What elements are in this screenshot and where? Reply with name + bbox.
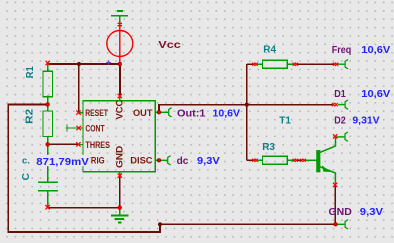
resistor R4	[256, 60, 294, 68]
pin connection cross: GND terminal node	[334, 223, 337, 226]
svg-text:R2: R2	[25, 108, 36, 123]
pin connection cross: 555 GND pin	[118, 173, 122, 177]
wire: from node down to RESET pin	[78, 64, 80, 113]
capacitor C	[38, 144, 58, 206]
wire: bottom ground rail to GND terminal	[160, 223, 338, 225]
pin connection cross: CONT pin	[77, 126, 81, 130]
resistor R3	[256, 156, 294, 164]
wire: R3 left lead	[247, 159, 254, 161]
svg-text:871,79mV: 871,79mV	[36, 156, 89, 168]
pin connection crosses: R3 right pin	[293, 159, 299, 162]
svg-text:C: C	[21, 173, 32, 180]
svg-text:9,31V: 9,31V	[352, 116, 380, 127]
pin connection cross: source output node	[118, 62, 121, 65]
wire: R4 right lead to Freq terminal	[296, 63, 335, 65]
node: bottom rail corner	[158, 222, 162, 226]
pin connection crosses: R3 left pin	[252, 159, 257, 162]
wire: Vcc node rail from R1 top to source bottom	[48, 63, 120, 65]
pin connection cross: OUT pin node	[157, 111, 160, 114]
wire: R4 left lead	[247, 63, 254, 65]
wire: OUT pin up and right to D1 terminal	[159, 105, 333, 113]
pin connection cross: T1 emitter pin	[333, 183, 337, 187]
pin connection crosses: R4 left pin	[252, 63, 257, 66]
svg-text:c.: c.	[22, 155, 30, 166]
label GND 9,3V	[329, 207, 384, 218]
ground	[111, 208, 129, 223]
terminal dc	[161, 156, 171, 165]
svg-text:Out:1: Out:1	[177, 108, 206, 119]
svg-text:D2: D2	[334, 116, 346, 127]
svg-text:10,6V: 10,6V	[361, 89, 390, 100]
voltage source V1	[107, 22, 133, 64]
pin connection cross: capacitor bottom pin	[45, 205, 49, 209]
pin connection cross: T1 collector pin	[333, 134, 337, 138]
svg-text:dc: dc	[177, 156, 189, 167]
label c. 871,79mV	[21, 155, 91, 168]
svg-text:R4: R4	[263, 45, 276, 56]
pin connection crosses: R4 right pin	[293, 63, 298, 66]
terminal GND	[338, 220, 348, 229]
node: source output	[118, 62, 122, 66]
node: ground junction	[118, 206, 122, 210]
label D1 10,6V	[334, 89, 390, 100]
pin connection cross: RESET pin	[76, 110, 80, 114]
wire: 555 GND pin down to ground node	[119, 176, 121, 208]
svg-text:9,3V: 9,3V	[360, 207, 384, 218]
wire: R2 bottom junction to THRES pin	[48, 143, 79, 145]
pin connection cross: R2/C junction	[46, 143, 49, 146]
resistor R2	[43, 105, 53, 145]
label Freq 10,6V	[332, 45, 391, 56]
pin connection crosses: Freq terminal pin	[333, 63, 338, 66]
svg-text:VCC: VCC	[113, 100, 124, 120]
svg-text:T1: T1	[279, 115, 291, 126]
svg-text:10,6V: 10,6V	[213, 108, 241, 119]
svg-text:CONT: CONT	[85, 124, 104, 135]
svg-text:+: +	[106, 57, 112, 68]
transistor T1	[304, 137, 336, 184]
svg-text:RESET: RESET	[85, 108, 108, 119]
op-amp U1 555 timer box	[67, 97, 157, 175]
label dc 9,3V	[177, 156, 220, 167]
pin connection cross: DISC pin node	[157, 159, 160, 162]
wire: vertical from R4 down through node to R3	[246, 64, 248, 160]
wire: capacitor bottom to ground node	[48, 207, 120, 209]
svg-text:R1: R1	[25, 66, 36, 78]
pin connection cross: R1/R2 junction	[46, 103, 49, 106]
svg-text:Vcc: Vcc	[158, 40, 181, 51]
pin connection cross: THRES pin	[76, 142, 80, 146]
node: Vcc rail junction	[77, 62, 81, 66]
pin connection cross: R1 top pin	[46, 61, 50, 65]
pin connection cross: ground junction	[118, 206, 121, 209]
resistor R1	[43, 63, 53, 105]
node: R2/C junction	[46, 142, 50, 146]
svg-text:GND: GND	[329, 207, 352, 218]
svg-text:9,3V: 9,3V	[197, 156, 220, 167]
terminal Out:1	[161, 108, 172, 117]
node: emitter/ground rail	[333, 222, 337, 226]
svg-text:THRES: THRES	[85, 140, 110, 151]
svg-text:10,6V: 10,6V	[361, 45, 390, 56]
node: DISC pin	[157, 158, 161, 162]
terminal D2	[336, 132, 348, 141]
node: OUT pin	[157, 110, 161, 114]
wire: R1/R2 junction to left border, down and along bottom, up to ground rail	[8, 105, 160, 233]
wire: R3 right lead to transistor base	[296, 159, 302, 161]
svg-text:D1: D1	[334, 89, 346, 100]
pin connection cross: 555 VCC pin	[118, 94, 122, 98]
label D2 9,31V	[334, 116, 380, 127]
svg-text:R3: R3	[262, 142, 275, 153]
node: R1/R2 junction	[46, 102, 50, 106]
terminal D1	[338, 100, 348, 109]
svg-text:OUT: OUT	[133, 108, 153, 119]
svg-text:DISC: DISC	[130, 156, 152, 167]
svg-text:GND: GND	[113, 146, 124, 169]
pin connection crosses: D1 terminal pin	[332, 103, 338, 106]
wire: emitter down to ground rail	[334, 185, 336, 224]
power symbol Vcc bar	[111, 11, 128, 22]
node: R4/R3 branch	[245, 103, 249, 107]
pin connection crosses: T1 base pin	[300, 159, 306, 162]
wire: source output down to 555 VCC pin	[119, 64, 121, 96]
svg-text:Freq: Freq	[332, 45, 352, 56]
label Out:1 10,6V	[177, 108, 240, 119]
terminal Freq	[337, 59, 348, 68]
